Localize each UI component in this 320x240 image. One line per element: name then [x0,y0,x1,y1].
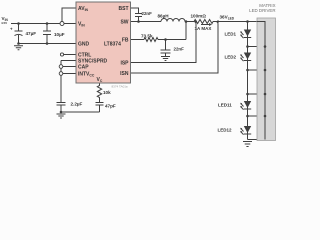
svg-text:10µF: 10µF [54,32,65,37]
svg-text:47µF: 47µF [26,31,37,36]
LED D12 arrows [240,128,243,135]
wire ground rail [19,43,77,45]
wire 36VLED line [213,21,265,23]
wire current arrow 1A MAX [201,24,209,26]
LED D2 arrows [240,54,243,61]
capacitor C5 22nF BST [135,14,142,22]
wire INTVCC [61,73,76,75]
svg-text:SW: SW [120,19,128,25]
wire BST [131,8,139,14]
svg-text:FB: FB [122,37,129,43]
svg-text:86µH: 86µH [158,14,170,19]
ground FB cap [161,57,170,61]
svg-text:ISN: ISN [120,71,129,77]
node dot comp rail [60,111,63,114]
svg-text:47pF: 47pF [105,103,116,108]
LED D11 [244,101,251,110]
svg-text:10k: 10k [103,90,111,95]
svg-text:CAP: CAP [78,64,89,70]
node dot input cap2 [46,22,49,25]
svg-text:+: + [10,27,13,32]
svg-text:22nF: 22nF [142,11,153,16]
svg-text:22nF: 22nF [174,47,185,52]
resistor R2 10k vertical [97,83,101,103]
node dot sense right [217,20,219,22]
current arrow head 1A MAX [209,23,212,26]
node open terminal CTRL [60,53,63,56]
node dot bus 4 [264,115,267,118]
node dot LED top [246,20,249,23]
node open terminal INTVCC [59,72,63,76]
node dot FB junction [164,38,167,41]
node open terminal VIN [60,22,64,26]
node open terminal CAP [59,65,63,69]
wire CTRL [64,54,77,56]
svg-text:LT8374: LT8374 [104,41,121,47]
capacitor C6 22nF FB [161,40,171,57]
wire CAP [61,66,76,68]
node dot LED2-gap [246,69,249,72]
ground LED string [243,142,252,147]
node dot sense left [195,20,197,22]
node dot inductor out [185,20,188,23]
wire ISN corner arc [216,22,219,25]
wire ISP [131,24,197,63]
svg-text:LED DRIVER: LED DRIVER [249,8,275,13]
wire LED tap 1 [248,46,266,48]
svg-text:LED2: LED2 [225,55,237,60]
capacitor C2 10uF [43,24,51,44]
svg-text:ISP: ISP [120,61,129,67]
LED D1 arrows [240,31,243,38]
LED D1 [244,30,251,39]
capacitor C3 2.2uF [57,103,66,113]
svg-text:8374 TA01a: 8374 TA01a [112,85,128,89]
wire LED tap 4 [248,115,266,117]
node dot LED11-12 [246,115,249,118]
svg-text:BST: BST [119,6,129,12]
svg-text:LED11: LED11 [218,103,232,108]
wire inductor to sense [185,21,194,23]
svg-text:2.2µF: 2.2µF [71,101,83,106]
wire FB riser [185,22,187,40]
node dot LED1-2 [246,45,249,48]
wire FB node [158,39,186,41]
label MATRIX LED DRIVER [249,3,275,13]
svg-text:100mΩ: 100mΩ [191,14,207,19]
node dot bus 2 [264,69,267,72]
wire LED string [247,22,249,140]
node VIN input rail [11,23,76,25]
wire LED return [248,139,266,141]
ground input [14,46,23,50]
resistor R3 73.5k [144,38,158,42]
wire LED tap 3 [248,93,266,95]
resistor R1 100mOhm [194,20,213,24]
node dot gap-LED11 [246,93,249,96]
node dot bus 3 [264,93,267,96]
wire bus inside driver block [257,22,265,140]
wire SYNC/SPRD [61,60,76,62]
svg-text:73.5k: 73.5k [141,33,153,38]
IC U1 LT8374 [76,2,131,83]
svg-text:LED1: LED1 [225,32,237,37]
svg-text:GND: GND [78,41,90,47]
wire AVIN elbow [62,8,76,24]
wire riser to 2.2uF [60,61,62,103]
node dot gnd cap2 [46,42,49,45]
node dot BST/SW [137,20,140,23]
node dot input cap1 [17,22,20,25]
svg-text:LED12: LED12 [218,128,233,133]
capacitor C4 47pF [96,103,104,113]
capacitor C1 47uF stub [15,24,23,44]
node dot gnd cap1 [17,42,20,45]
inductor L1 86uH [161,19,185,22]
svg-text:1A MAX: 1A MAX [195,26,212,31]
LED D2 [244,53,251,62]
wire LED tap 2 [248,69,266,71]
wire SW [131,21,162,23]
LED D12 [244,126,251,135]
MATRIX LED DRIVER block [257,18,276,141]
wire comp bottom rail [61,111,100,113]
wire FB [131,39,145,41]
LED D11 arrows [240,103,243,110]
node dot bus 1 [264,45,267,48]
svg-text:4.5V: 4.5V [1,21,7,25]
wire ISN [131,24,219,73]
wire ISP corner arc [194,22,197,25]
ground comp [57,114,66,118]
